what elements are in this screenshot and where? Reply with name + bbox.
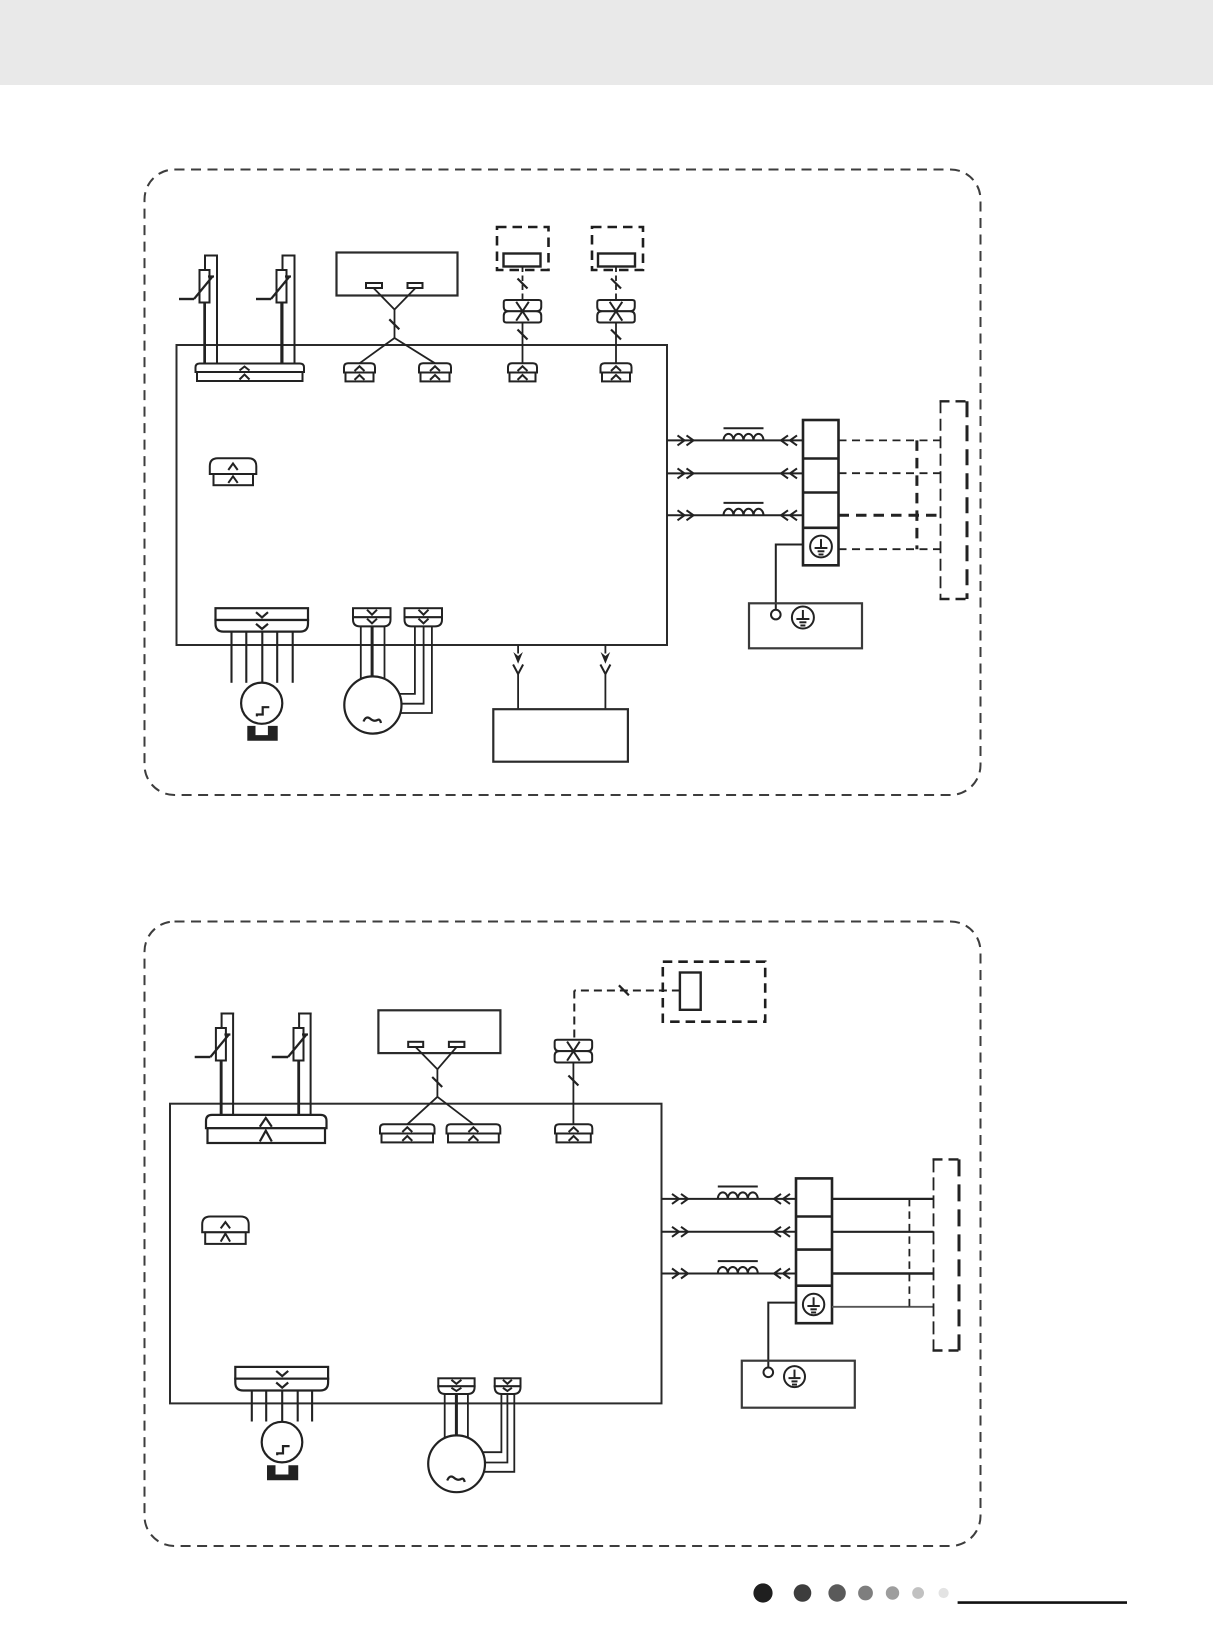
display 2 terminal b — [449, 1042, 465, 1047]
terminal block XT1 — [803, 420, 839, 565]
fan motor M4 — [428, 1435, 485, 1492]
arrow out S — [678, 510, 685, 520]
indoor terminal strip 2 (dashed) — [933, 1159, 961, 1350]
dashed wire SW2 down — [615, 267, 617, 301]
optional device box SW1 (dashed) — [497, 227, 549, 270]
connector CN13 — [447, 1124, 501, 1142]
twist slash SW1 upper — [518, 279, 528, 289]
compressor connector CN15 — [235, 1367, 328, 1391]
XT2 divider 3 — [796, 1284, 832, 1287]
fan connector CN8 — [353, 608, 391, 626]
earth stud circle — [771, 610, 781, 620]
dashed link vertical (unit2) — [908, 1199, 910, 1307]
AC symbol in M2 — [364, 718, 382, 724]
SW3 inner terminal — [680, 973, 701, 1010]
header band — [0, 0, 1213, 85]
XT1 earth terminal — [810, 536, 832, 558]
pagination dot 3 — [828, 1584, 845, 1601]
compressor wire ribbon 2 — [252, 1391, 312, 1422]
dashed field wire 3 (bold) — [839, 514, 941, 517]
thermistor RT3 (tube temp sensor) — [195, 1013, 234, 1117]
fan wires from CN9 — [399, 626, 432, 713]
wire junction to CN3 — [395, 338, 436, 363]
thermistor RT4 (ambient temp sensor) — [272, 1013, 312, 1117]
connector pair X3 — [555, 1040, 593, 1063]
arrow in N — [790, 468, 797, 478]
field wire 4 (unit2 earth) — [832, 1306, 934, 1308]
fan motor M2 — [344, 676, 401, 733]
power wire L (unit2) — [662, 1198, 797, 1200]
arrow out N2 — [672, 1227, 679, 1237]
AC symbol in M4 — [447, 1477, 465, 1483]
earth symbol in plate — [792, 607, 814, 629]
thermistor RT2 (ambient temp sensor) — [256, 255, 296, 365]
spare connector CN10 on PCB — [210, 458, 256, 485]
dashed field wire 1 — [839, 439, 941, 441]
dashed field wire 2 — [839, 472, 941, 474]
pagination dot 1 — [753, 1583, 772, 1602]
comm wire S (unit1) — [667, 514, 803, 516]
twist slash SW2 lower — [611, 330, 621, 340]
wire display to junction — [374, 289, 415, 339]
fan wires from CN8 — [361, 626, 385, 679]
arrow in N2 — [783, 1227, 790, 1237]
wire display2 to junction — [416, 1047, 457, 1097]
display 2 terminal a — [408, 1042, 423, 1047]
main PCB AP1 (unit 1) — [177, 345, 668, 645]
power wire L (unit1) — [667, 439, 803, 441]
arrow in L2 — [783, 1194, 790, 1204]
dashed wire SW3 vertical — [573, 991, 575, 1040]
fan wires from CN16 — [445, 1394, 468, 1439]
SW2 inner terminal — [598, 254, 635, 267]
pagination dot 7 — [939, 1588, 949, 1598]
compressor motor M1 — [241, 683, 282, 724]
XT1 divider 3 — [803, 526, 839, 529]
signal arrow 2 — [600, 645, 610, 709]
dashed wire SW3 horizontal — [574, 990, 680, 992]
sensor connector bar CN11 — [206, 1115, 327, 1143]
signal arrow 1 — [513, 645, 523, 709]
fan wires from CN17 — [483, 1394, 515, 1472]
pagination dot 6 — [912, 1587, 924, 1599]
fan connector CN16 — [438, 1378, 474, 1394]
XT2 divider 1 — [796, 1215, 832, 1218]
compressor mount bracket — [247, 726, 277, 741]
pagination dot 5 — [886, 1586, 899, 1599]
magnet core bar L3 — [718, 1186, 758, 1188]
choke coil L1 — [724, 434, 764, 441]
dashed field wire 4 — [839, 548, 941, 550]
wire X3 to CN14 — [572, 1063, 574, 1125]
compressor wire ribbon — [232, 632, 293, 683]
sensor connector bar CN1 — [196, 364, 305, 382]
comm wire S (unit2) — [662, 1273, 797, 1275]
arrow out N — [678, 468, 685, 478]
XT1 divider 2 — [803, 491, 839, 494]
earth plate box (unit2) — [742, 1361, 855, 1408]
arrow out S2 — [672, 1269, 679, 1279]
connector CN2 — [344, 363, 375, 381]
display terminal a — [366, 283, 382, 288]
footer rule — [958, 1601, 1127, 1604]
main PCB AP2 (unit 2) — [170, 1104, 662, 1404]
twist slash display2 — [432, 1077, 442, 1087]
power wire N (unit1) — [667, 472, 803, 474]
connector pair X1 — [504, 300, 542, 323]
wire junction2 to CN13 — [437, 1097, 473, 1125]
inverter symbol in M1 — [257, 707, 269, 716]
power wire N (unit2) — [662, 1231, 797, 1233]
connector CN4 — [508, 363, 537, 381]
XT2 divider 2 — [796, 1248, 832, 1251]
display board box — [337, 253, 458, 296]
field wire 3 (unit2 bold) — [832, 1272, 934, 1275]
twist slash SW1 lower — [518, 330, 528, 340]
pagination dot 2 — [794, 1584, 812, 1602]
optional device box SW2 (dashed) — [592, 227, 643, 270]
wire X2 to CN — [615, 323, 617, 364]
XT2 earth terminal — [803, 1294, 824, 1315]
display board box 2 — [378, 1010, 500, 1053]
fan connector CN9 — [405, 608, 443, 626]
spare connector CN18 on PCB 2 — [202, 1217, 249, 1244]
inverter symbol in M3 — [277, 1446, 289, 1455]
earth wire from XT2 — [768, 1303, 796, 1368]
connector CN12 — [380, 1124, 435, 1142]
dashed wire SW1 down — [522, 267, 524, 301]
field wire 2 (unit2) — [832, 1231, 934, 1233]
twist slash SW2 upper — [611, 279, 621, 289]
wire X1 to CN — [522, 323, 524, 364]
SW1 inner terminal — [504, 254, 541, 267]
earth stud circle 2 — [764, 1368, 774, 1378]
wire junction2 to CN12 — [407, 1097, 437, 1125]
indoor unit terminal strip (dashed) — [940, 401, 969, 599]
compressor motor M3 — [262, 1422, 303, 1463]
arrow out L — [678, 435, 685, 445]
connector CN5 — [601, 363, 632, 381]
twist slash on display wire — [389, 319, 399, 329]
magnet core bar L4 — [718, 1260, 758, 1262]
arrow in S — [790, 510, 797, 520]
earth symbol in plate 2 — [784, 1366, 805, 1387]
arrow out L2 — [672, 1194, 679, 1204]
arrow in S2 — [783, 1269, 790, 1279]
earth wire from XT1 — [776, 545, 803, 610]
connector pair X2 — [597, 300, 635, 323]
twist slash SW3 wire — [619, 985, 629, 995]
choke coil L4 — [718, 1267, 758, 1274]
pagination dot 4 — [858, 1586, 873, 1601]
magnet core bar L2 — [724, 502, 764, 504]
display terminal b — [408, 283, 423, 288]
connector CN3 — [419, 363, 451, 381]
XT1 divider 1 — [803, 457, 839, 460]
compressor connector CN7 — [216, 608, 309, 631]
twist slash X3 lower — [568, 1076, 578, 1086]
fan connector CN17 — [495, 1378, 521, 1394]
arrow in L — [790, 435, 797, 445]
choke coil L2 — [724, 509, 764, 515]
optional device box SW3 (dashed) — [663, 962, 765, 1022]
wire junction to CN2 — [360, 338, 395, 363]
field wire 1 (unit2) — [832, 1198, 934, 1200]
magnet core bar L1 — [724, 427, 764, 429]
dashed link vertical (bold) — [915, 440, 918, 549]
outdoor unit 2 dashed border — [145, 922, 981, 1547]
connector CN14 — [555, 1124, 592, 1142]
outdoor unit 1 dashed border — [145, 170, 981, 796]
terminal block XT2 — [796, 1178, 832, 1323]
thermistor RT1 (tube temp sensor) — [179, 255, 218, 365]
compressor mount bracket 2 — [267, 1465, 298, 1480]
electric expansion valve box — [493, 709, 628, 762]
earth plate box (unit1) — [749, 603, 862, 648]
choke coil L3 — [718, 1192, 758, 1198]
